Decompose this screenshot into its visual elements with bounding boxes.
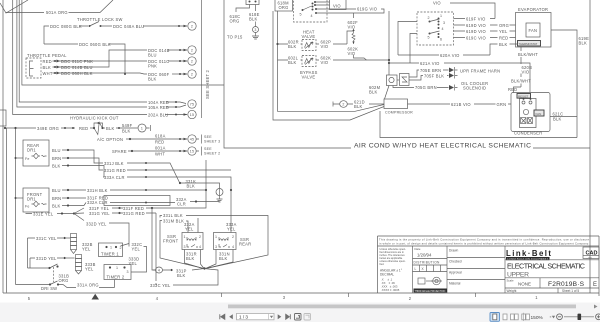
svg-text:3: 3 — [184, 245, 186, 249]
svg-text:331G YEL: 331G YEL — [89, 211, 110, 216]
evaporator box — [516, 13, 552, 48]
svg-text:6: 6 — [440, 38, 442, 42]
svg-text:3: 3 — [215, 245, 217, 249]
svg-text:619F VIO: 619F VIO — [466, 17, 486, 22]
svg-text:331G RED: 331G RED — [104, 168, 126, 173]
svg-text:SOLENOID: SOLENOID — [463, 86, 486, 91]
svg-text:Checked: Checked — [449, 260, 462, 264]
wire 331M BLK — [160, 221, 188, 233]
svg-text:Fe: Fe — [25, 157, 30, 161]
svg-text:RED: RED — [43, 59, 52, 64]
layout icon two-up continuous — [522, 313, 530, 321]
nav first page button — [220, 314, 225, 319]
wire 705F BLK — [409, 76, 449, 81]
svg-text:Sheet 1 of 5: Sheet 1 of 5 — [562, 289, 579, 293]
svg-text:DDC 014B BLU: DDC 014B BLU — [61, 65, 93, 70]
svg-text:E: E — [593, 282, 597, 288]
scale row divider — [505, 277, 599, 279]
svg-text:ORG: ORG — [499, 23, 509, 28]
throttle pedal potentiometer — [30, 61, 34, 77]
svg-text:5: 5 — [300, 13, 302, 17]
previous view icon — [295, 314, 302, 321]
svg-text:1: 1 — [116, 266, 118, 270]
wire 331C YEL feeder — [28, 238, 64, 268]
svg-text:BLK: BLK — [553, 117, 562, 122]
throttle pedal dashed box — [26, 58, 41, 78]
svg-text:BLK: BLK — [177, 273, 186, 278]
wire harness vertical 105A feed — [17, 0, 147, 107]
logo column divider — [504, 246, 506, 293]
wire 331G drop to 333C — [155, 213, 157, 281]
thermal switch symbol — [352, 30, 355, 45]
svg-text:YEL: YEL — [85, 267, 94, 272]
svg-text:TO P15: TO P15 — [227, 35, 243, 40]
wire 618M down feeder — [277, 11, 279, 62]
svg-text:331J BLK: 331J BLK — [104, 161, 124, 166]
wire DDC 060G BLK — [44, 44, 125, 74]
svg-text:202A BLU: 202A BLU — [148, 113, 168, 118]
wire to ground connector — [255, 22, 257, 27]
see sheet 2 bracket (spare) — [197, 147, 202, 156]
svg-text:620A VIO: 620A VIO — [440, 53, 460, 58]
svg-text:BLK/WHT: BLK/WHT — [518, 52, 538, 57]
SSR pin drop wires to junction — [185, 250, 234, 269]
rotary switch dash-dot box — [294, 0, 328, 22]
fan switch dash-dot box — [417, 12, 454, 45]
svg-text:2: 2 — [428, 16, 430, 20]
svg-text:Approval: Approval — [449, 271, 462, 275]
condenser outer box — [511, 93, 550, 132]
svg-text:REAR: REAR — [239, 242, 251, 247]
svg-text:GRN: GRN — [497, 102, 507, 107]
svg-text:BLK: BLK — [43, 65, 52, 70]
svg-text:705G BRN: 705G BRN — [415, 85, 437, 90]
sheet border left — [2, 0, 4, 293]
compressor down wire — [380, 111, 577, 138]
zone tick — [475, 293, 477, 297]
wire relay to 705E — [409, 70, 449, 77]
rotary switch contacts — [312, 3, 314, 5]
svg-text:F2R019B·S: F2R019B·S — [548, 281, 585, 288]
svg-text:fied.: fied. — [380, 263, 385, 266]
svg-text:1 / 3: 1 / 3 — [239, 315, 248, 320]
signature column divider — [446, 246, 448, 293]
tolerance cell divider — [412, 246, 414, 293]
svg-text:YEL: YEL — [227, 227, 236, 232]
svg-text:WHT: WHT — [43, 71, 53, 76]
svg-text:BRN: BRN — [52, 196, 61, 201]
fuse ladder connector 1 — [71, 234, 77, 254]
wire harness vertical 202A feed — [13, 0, 147, 115]
svg-text:4: 4 — [442, 27, 444, 31]
projection symbols — [418, 277, 442, 285]
svg-text:1: 1 — [141, 127, 143, 131]
svg-text:CLR: CLR — [177, 202, 186, 207]
fuse ladder connector 2 — [76, 255, 82, 275]
wire diagonal into top-left corner — [0, 0, 28, 13]
connector circle 2 (060F) — [188, 70, 196, 78]
wire 105A to circle 75 — [166, 105, 186, 107]
svg-text:DDC 060G BLK: DDC 060G BLK — [79, 42, 111, 47]
svg-text:SPARE: SPARE — [112, 149, 127, 154]
svg-text:DR1: DR1 — [27, 148, 36, 153]
zoom in button — [596, 314, 600, 320]
wire harness vertical 104A feed — [19, 0, 147, 102]
svg-text:3: 3 — [254, 28, 256, 32]
svg-text:FRONT: FRONT — [163, 239, 179, 244]
dri switch bottom pole — [16, 281, 58, 285]
wire 331J to junction — [127, 163, 180, 183]
svg-text:75: 75 — [190, 103, 194, 107]
rear door box — [23, 140, 49, 166]
svg-text:45: 45 — [190, 138, 194, 142]
svg-text:CONDENSER: CONDENSER — [514, 131, 542, 136]
svg-text:331M BLK: 331M BLK — [163, 219, 184, 224]
wire 333A CLR to vertical — [127, 177, 231, 233]
ground symbol under connector — [252, 33, 259, 40]
relay feeder vertical — [388, 11, 390, 75]
svg-text:2: 2 — [191, 49, 193, 53]
wire 621C BLK — [550, 116, 577, 118]
connector circle 45 — [188, 135, 196, 143]
svg-text:331L BLK: 331L BLK — [163, 213, 183, 218]
junction node 331K — [179, 182, 181, 184]
svg-text:150%: 150% — [531, 315, 544, 321]
svg-text:VALVE: VALVE — [302, 34, 316, 39]
wire DDC 048A BLU — [101, 25, 187, 27]
heat valve solenoid — [302, 40, 316, 51]
svg-text:619G VIO: 619G VIO — [357, 7, 377, 12]
svg-text:3: 3 — [283, 295, 286, 300]
wire 619D ORG row — [454, 24, 516, 26]
svg-text:2: 2 — [191, 60, 193, 64]
svg-text:DISTRIBUTION: DISTRIBUTION — [414, 261, 440, 265]
connector circle 3 — [253, 27, 259, 33]
wire 618E BLK — [255, 5, 257, 12]
harness arrow 705G — [449, 85, 454, 90]
wire 619C RED row — [454, 37, 516, 39]
svg-text:DR1: DR1 — [27, 197, 36, 202]
svg-text:SEE: SEE — [204, 135, 212, 139]
fan box — [526, 23, 540, 37]
zoom slider knob — [578, 314, 582, 320]
svg-text:VIO: VIO — [321, 44, 329, 49]
svg-text:BLK: BLK — [122, 129, 131, 134]
svg-text:4: 4 — [311, 14, 313, 18]
wire 331A ORG — [59, 285, 115, 288]
throttle lock switch blade — [90, 22, 100, 27]
nested box wire to compressor (inner) — [278, 62, 385, 111]
connector shell rectangle — [104, 196, 170, 206]
svg-text:THROTTLE LOCK SW: THROTTLE LOCK SW — [77, 17, 123, 22]
wire 501A ORG — [6, 0, 113, 13]
svg-text:Material: Material — [449, 282, 461, 286]
condenser bottom elements — [521, 118, 527, 124]
svg-text:COMPRESSOR: COMPRESSOR — [385, 111, 413, 115]
wire 619G VIO loop — [316, 9, 384, 13]
wire to circle DDC 014B — [168, 49, 187, 51]
svg-text:1/20/94: 1/20/94 — [417, 253, 432, 258]
svg-text:BRN: BRN — [52, 156, 61, 161]
wire 332A CLR to ground — [110, 202, 220, 203]
wire 333C YEL — [156, 269, 218, 285]
svg-text:549F: 549F — [122, 123, 133, 128]
condenser pins — [522, 101, 525, 104]
box 618M ORG — [275, 0, 293, 11]
title block outer frame — [378, 236, 600, 296]
svg-text:BLK: BLK — [499, 42, 508, 47]
wire junction to ground — [180, 183, 220, 189]
svg-text:BLK: BLK — [186, 256, 195, 261]
nested box wire to compressor (outer) — [273, 11, 384, 120]
svg-text:TIMER 1: TIMER 1 — [101, 252, 119, 257]
svg-text:1: 1 — [215, 235, 217, 239]
harness arrow 705F — [449, 73, 454, 78]
svg-text:YEL: YEL — [185, 227, 194, 232]
hydraulic kick out variable resistor — [90, 123, 103, 135]
wire 621A VIO — [389, 63, 530, 93]
svg-text:1: 1 — [535, 295, 538, 300]
svg-text:SEE SHEET 2: SEE SHEET 2 — [205, 69, 210, 99]
zoom slider track — [564, 316, 594, 318]
svg-text:331D YEL: 331D YEL — [36, 256, 57, 261]
svg-text:VIO: VIO — [348, 51, 356, 56]
svg-text:BLK: BLK — [187, 184, 196, 189]
compressor box — [384, 99, 408, 109]
svg-text:001A: 001A — [155, 146, 166, 151]
condenser inner box — [520, 99, 537, 128]
svg-text:.XXXX ± .0005: .XXXX ± .0005 — [381, 288, 400, 292]
left feed spine wire — [15, 128, 17, 285]
svg-text:BLK: BLK — [52, 204, 61, 209]
connector circle 4 — [153, 269, 156, 271]
tolerance note tiny text — [380, 248, 407, 266]
wire heat valve row up to thermal switch — [347, 31, 354, 44]
wire 332A YEL drop — [197, 218, 199, 233]
svg-text:4: 4 — [158, 269, 160, 273]
SSR REAR box — [214, 233, 237, 250]
oil cooler relay diode box — [400, 74, 410, 86]
wire 349E ORG — [5, 127, 75, 129]
svg-text:A/C OPTION: A/C OPTION — [97, 137, 123, 142]
svg-text:VIO: VIO — [333, 4, 341, 9]
wire to circle DDC 011C — [95, 60, 187, 62]
resist box — [517, 94, 531, 99]
layout icon two pages — [511, 314, 519, 320]
svg-text:331G RED: 331G RED — [123, 211, 145, 216]
svg-text:FAN: FAN — [529, 28, 538, 33]
svg-text:VIO: VIO — [321, 60, 329, 65]
svg-text:THROTTLE PEDAL: THROTTLE PEDAL — [27, 53, 67, 58]
arrowheads into connector circles — [184, 25, 188, 153]
svg-text:332D YEL: 332D YEL — [86, 222, 107, 227]
evaporator out wire 619E — [551, 30, 577, 138]
svg-text:Fe: Fe — [25, 205, 30, 209]
svg-text:619D VIO: 619D VIO — [466, 23, 486, 28]
svg-text:VIO: VIO — [433, 1, 441, 6]
svg-text:in whole or in part, of design: in whole or in part, of design and detai… — [379, 242, 589, 246]
svg-text:333A CLR: 333A CLR — [104, 175, 125, 180]
drawing number cell — [539, 278, 541, 288]
wire 331D YEL feeder — [30, 258, 63, 268]
svg-text:705E BRN: 705E BRN — [420, 68, 441, 73]
page number input box — [237, 313, 275, 319]
wire into front door — [16, 197, 24, 199]
wire 618C ORG — [236, 5, 250, 13]
svg-text:331A ORG: 331A ORG — [77, 283, 99, 288]
wire 619D YEL row — [454, 30, 516, 32]
wire SPARE 001A — [128, 150, 187, 152]
svg-text:SEE: SEE — [204, 147, 212, 151]
svg-text:1: 1 — [184, 235, 186, 239]
zone fold marker triangle — [92, 294, 100, 300]
svg-text:Weight: Weight — [507, 289, 517, 293]
svg-text:VALVE: VALVE — [302, 75, 316, 80]
wire 602F VIO thermal switch — [353, 13, 355, 18]
wire harness vertical to bus y85 — [22, 0, 224, 85]
svg-text:EVAPORATOR: EVAPORATOR — [518, 7, 548, 12]
timer 1 box — [99, 243, 123, 257]
tolerance values — [381, 278, 400, 293]
connector circle 2 (621D) — [340, 101, 348, 108]
svg-text:NONE: NONE — [518, 282, 531, 287]
wire 331L BLK — [160, 216, 268, 269]
wire 549F BLK — [116, 127, 138, 129]
svg-text:RESIST: RESIST — [518, 94, 529, 98]
svg-text:BLK: BLK — [52, 164, 61, 169]
svg-text:DECIMAL: DECIMAL — [380, 273, 394, 277]
component box at top edge — [246, 0, 259, 5]
wire 332C drop — [131, 247, 147, 273]
svg-text:BLK: BLK — [288, 60, 297, 65]
svg-text:X: X — [422, 267, 425, 271]
svg-text:ORG: ORG — [279, 5, 289, 10]
heat valve row wires — [278, 43, 348, 45]
svg-text:YEL: YEL — [499, 29, 508, 34]
svg-text:1: 1 — [110, 246, 112, 250]
svg-text:4: 4 — [156, 296, 159, 301]
wire into rear door — [16, 157, 24, 159]
svg-text:5: 5 — [28, 296, 31, 301]
svg-text:THERMOSTAT: THERMOSTAT — [519, 42, 538, 46]
svg-text:619C VIO: 619C VIO — [466, 36, 486, 41]
next view icon (disabled) — [304, 314, 311, 321]
svg-text:BLK: BLK — [288, 44, 297, 49]
svg-text:2: 2 — [409, 296, 412, 301]
svg-text:333C YEL: 333C YEL — [150, 283, 171, 288]
connector circle 75 — [188, 100, 196, 108]
svg-text:THIRD ANGLE PROJECTION: THIRD ANGLE PROJECTION — [415, 290, 446, 293]
svg-text:YEL: YEL — [82, 247, 91, 252]
wire DDC 080G BLK with bracket — [44, 26, 88, 44]
svg-text:YEL: YEL — [129, 261, 138, 266]
see sheet 2 bracket — [201, 0, 203, 118]
CAD box — [583, 247, 599, 259]
svg-text:Date: Date — [415, 247, 421, 251]
svg-text:RED: RED — [79, 126, 88, 131]
svg-text:RED: RED — [508, 87, 517, 92]
zoom dropdown arrow — [550, 316, 551, 318]
svg-text:Link·Belt: Link·Belt — [506, 249, 551, 258]
junction node SSR common — [203, 267, 205, 269]
layout icon continuous — [503, 314, 507, 320]
svg-text:WHT: WHT — [155, 152, 165, 157]
svg-text:2: 2 — [120, 246, 122, 250]
connector circle 15 — [188, 110, 196, 118]
connector circle 2 (011C) — [188, 57, 196, 65]
svg-text:RED: RED — [155, 140, 164, 145]
svg-text:DDC 048A BLU: DDC 048A BLU — [113, 24, 144, 29]
svg-text:BLK/WHT: BLK/WHT — [511, 79, 531, 84]
svg-text:15: 15 — [190, 113, 194, 117]
svg-text:105A RED: 105A RED — [148, 105, 169, 110]
svg-text:BLK: BLK — [354, 104, 363, 109]
nav next page button — [278, 314, 282, 319]
connector circle 15 spare — [188, 147, 196, 155]
connector circle 2 (014B) — [188, 46, 196, 54]
svg-text:L: L — [415, 267, 417, 271]
left margin wire — [6, 128, 8, 293]
svg-text:618A: 618A — [155, 134, 166, 139]
dri switch top pole — [28, 264, 58, 268]
svg-text:BLK: BLK — [249, 17, 258, 22]
svg-text:VIO: VIO — [348, 25, 356, 30]
svg-text:331E YEL: 331E YEL — [33, 212, 54, 217]
svg-text:3: 3 — [443, 21, 445, 25]
svg-text:SHEET 3: SHEET 3 — [204, 140, 220, 144]
wire 202A to circle 15 — [165, 114, 187, 116]
svg-text:1: 1 — [440, 14, 442, 18]
svg-text:BLK: BLK — [106, 126, 115, 131]
svg-text:DDC 060H BLK: DDC 060H BLK — [61, 71, 93, 76]
svg-text:BLK: BLK — [219, 256, 228, 261]
wire 331G RED row — [112, 212, 156, 214]
zone tick — [348, 293, 350, 297]
svg-text:ORG: ORG — [230, 19, 240, 24]
svg-text:Scale: Scale — [507, 279, 514, 283]
zoom out button — [557, 314, 563, 320]
box 602A VIO — [330, 0, 347, 10]
svg-text:705F BLK: 705F BLK — [424, 74, 444, 79]
wire 331F RED row — [112, 160, 206, 208]
bypass valve row wires — [278, 59, 390, 61]
wire 619F VIO top loop — [450, 3, 495, 19]
wire 620A VIO — [398, 54, 490, 56]
svg-text:332A CLR: 332A CLR — [87, 200, 108, 205]
svg-text:PNK: PNK — [148, 64, 157, 69]
svg-text:5: 5 — [428, 36, 430, 40]
wire 621D BLK stub — [333, 102, 340, 107]
wire timer2 to 331A — [114, 280, 116, 288]
wire 621B VIO GRN — [408, 103, 512, 105]
svg-text:DRI SW: DRI SW — [41, 286, 57, 291]
layout icon single page (selected) — [490, 313, 500, 322]
scrollbar right arrow — [594, 305, 598, 309]
bottom toolbar background — [0, 303, 600, 322]
front door box — [23, 188, 49, 212]
dri switch dashed link — [53, 267, 55, 282]
wire A/C option 618A — [126, 138, 187, 140]
wire to circle DDC 060F — [172, 73, 187, 75]
svg-text:2: 2 — [232, 235, 234, 239]
distribution grid — [420, 265, 441, 272]
svg-text:SHEET 2: SHEET 2 — [204, 152, 220, 156]
svg-text:2: 2 — [191, 73, 193, 77]
svg-text:2: 2 — [191, 25, 193, 29]
svg-text:4: 4 — [232, 245, 234, 249]
svg-text:BLU: BLU — [148, 53, 157, 58]
svg-text:349E ORG: 349E ORG — [37, 126, 59, 131]
